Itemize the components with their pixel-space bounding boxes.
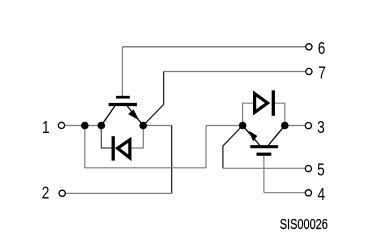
wire pin1 to node B — [65, 125, 101, 127]
terminal 7 — [306, 68, 312, 74]
svg-text:3: 3 — [317, 119, 325, 138]
wire node D diagonal to pin5 — [223, 126, 243, 147]
svg-text:SIS00026: SIS00026 — [280, 215, 328, 232]
wire pin5 riser — [222, 146, 224, 168]
wire node A horizontal run — [85, 167, 206, 169]
node A — [81, 122, 89, 130]
svg-text:7: 7 — [318, 64, 326, 83]
diode D2 cathode bar — [272, 90, 275, 116]
svg-text:2: 2 — [42, 184, 50, 203]
node B — [98, 122, 106, 130]
diode D1 right leg — [131, 126, 143, 149]
svg-text:4: 4 — [318, 185, 326, 204]
terminal 5 — [305, 166, 311, 172]
diode D2 right leg — [275, 103, 285, 125]
wire pin5 horizontal — [223, 167, 305, 169]
wire node C to pin2 corner — [146, 125, 172, 127]
diode D2 triangle — [255, 94, 268, 113]
terminal 4 — [305, 190, 311, 196]
diode D2 left leg — [243, 103, 253, 125]
wire gate T2 vertical — [263, 156, 265, 193]
node C — [139, 122, 147, 130]
terminal 1 — [58, 122, 64, 128]
IGBT T1 collector line — [101, 106, 115, 126]
svg-text:5: 5 — [317, 161, 325, 180]
IGBT T2 gate bar — [257, 153, 272, 156]
terminal 3 — [305, 123, 311, 129]
svg-text:6: 6 — [318, 40, 326, 59]
diode D1 left leg — [101, 126, 111, 149]
wire pin2 horizontal — [66, 192, 173, 194]
wire node E to pin3 — [285, 125, 305, 127]
wire pin4 horizontal — [264, 192, 305, 194]
node D — [239, 122, 247, 130]
IGBT T1 emitter arrow — [128, 109, 139, 120]
terminal 6 — [306, 44, 312, 50]
wire pin7 riser — [163, 72, 165, 105]
IGBT T1 main bar — [109, 103, 137, 106]
IGBT T2 main bar — [250, 145, 278, 148]
wire pin6 horizontal — [122, 46, 305, 48]
IGBT T1 gate bar — [116, 96, 130, 99]
terminal 2 — [59, 190, 65, 196]
node E — [281, 122, 289, 130]
wire to node D — [206, 125, 243, 127]
IGBT T1 emitter line — [127, 106, 143, 126]
wire vertical to pin2 — [171, 126, 173, 194]
wire pin7 horizontal — [164, 71, 306, 73]
wire riser to node D — [205, 126, 207, 168]
IGBT T2 emitter arrow — [249, 131, 257, 142]
wire gate T1 vertical — [121, 47, 123, 96]
IGBT T2 emitter line — [243, 126, 260, 146]
diode D1 triangle — [118, 140, 130, 158]
wire node A down — [84, 126, 86, 168]
IGBT T2 collector line — [269, 126, 285, 146]
svg-text:1: 1 — [42, 119, 50, 138]
diode D1 cathode bar — [112, 136, 115, 160]
wire node C diagonal to pin7 riser — [143, 104, 164, 125]
